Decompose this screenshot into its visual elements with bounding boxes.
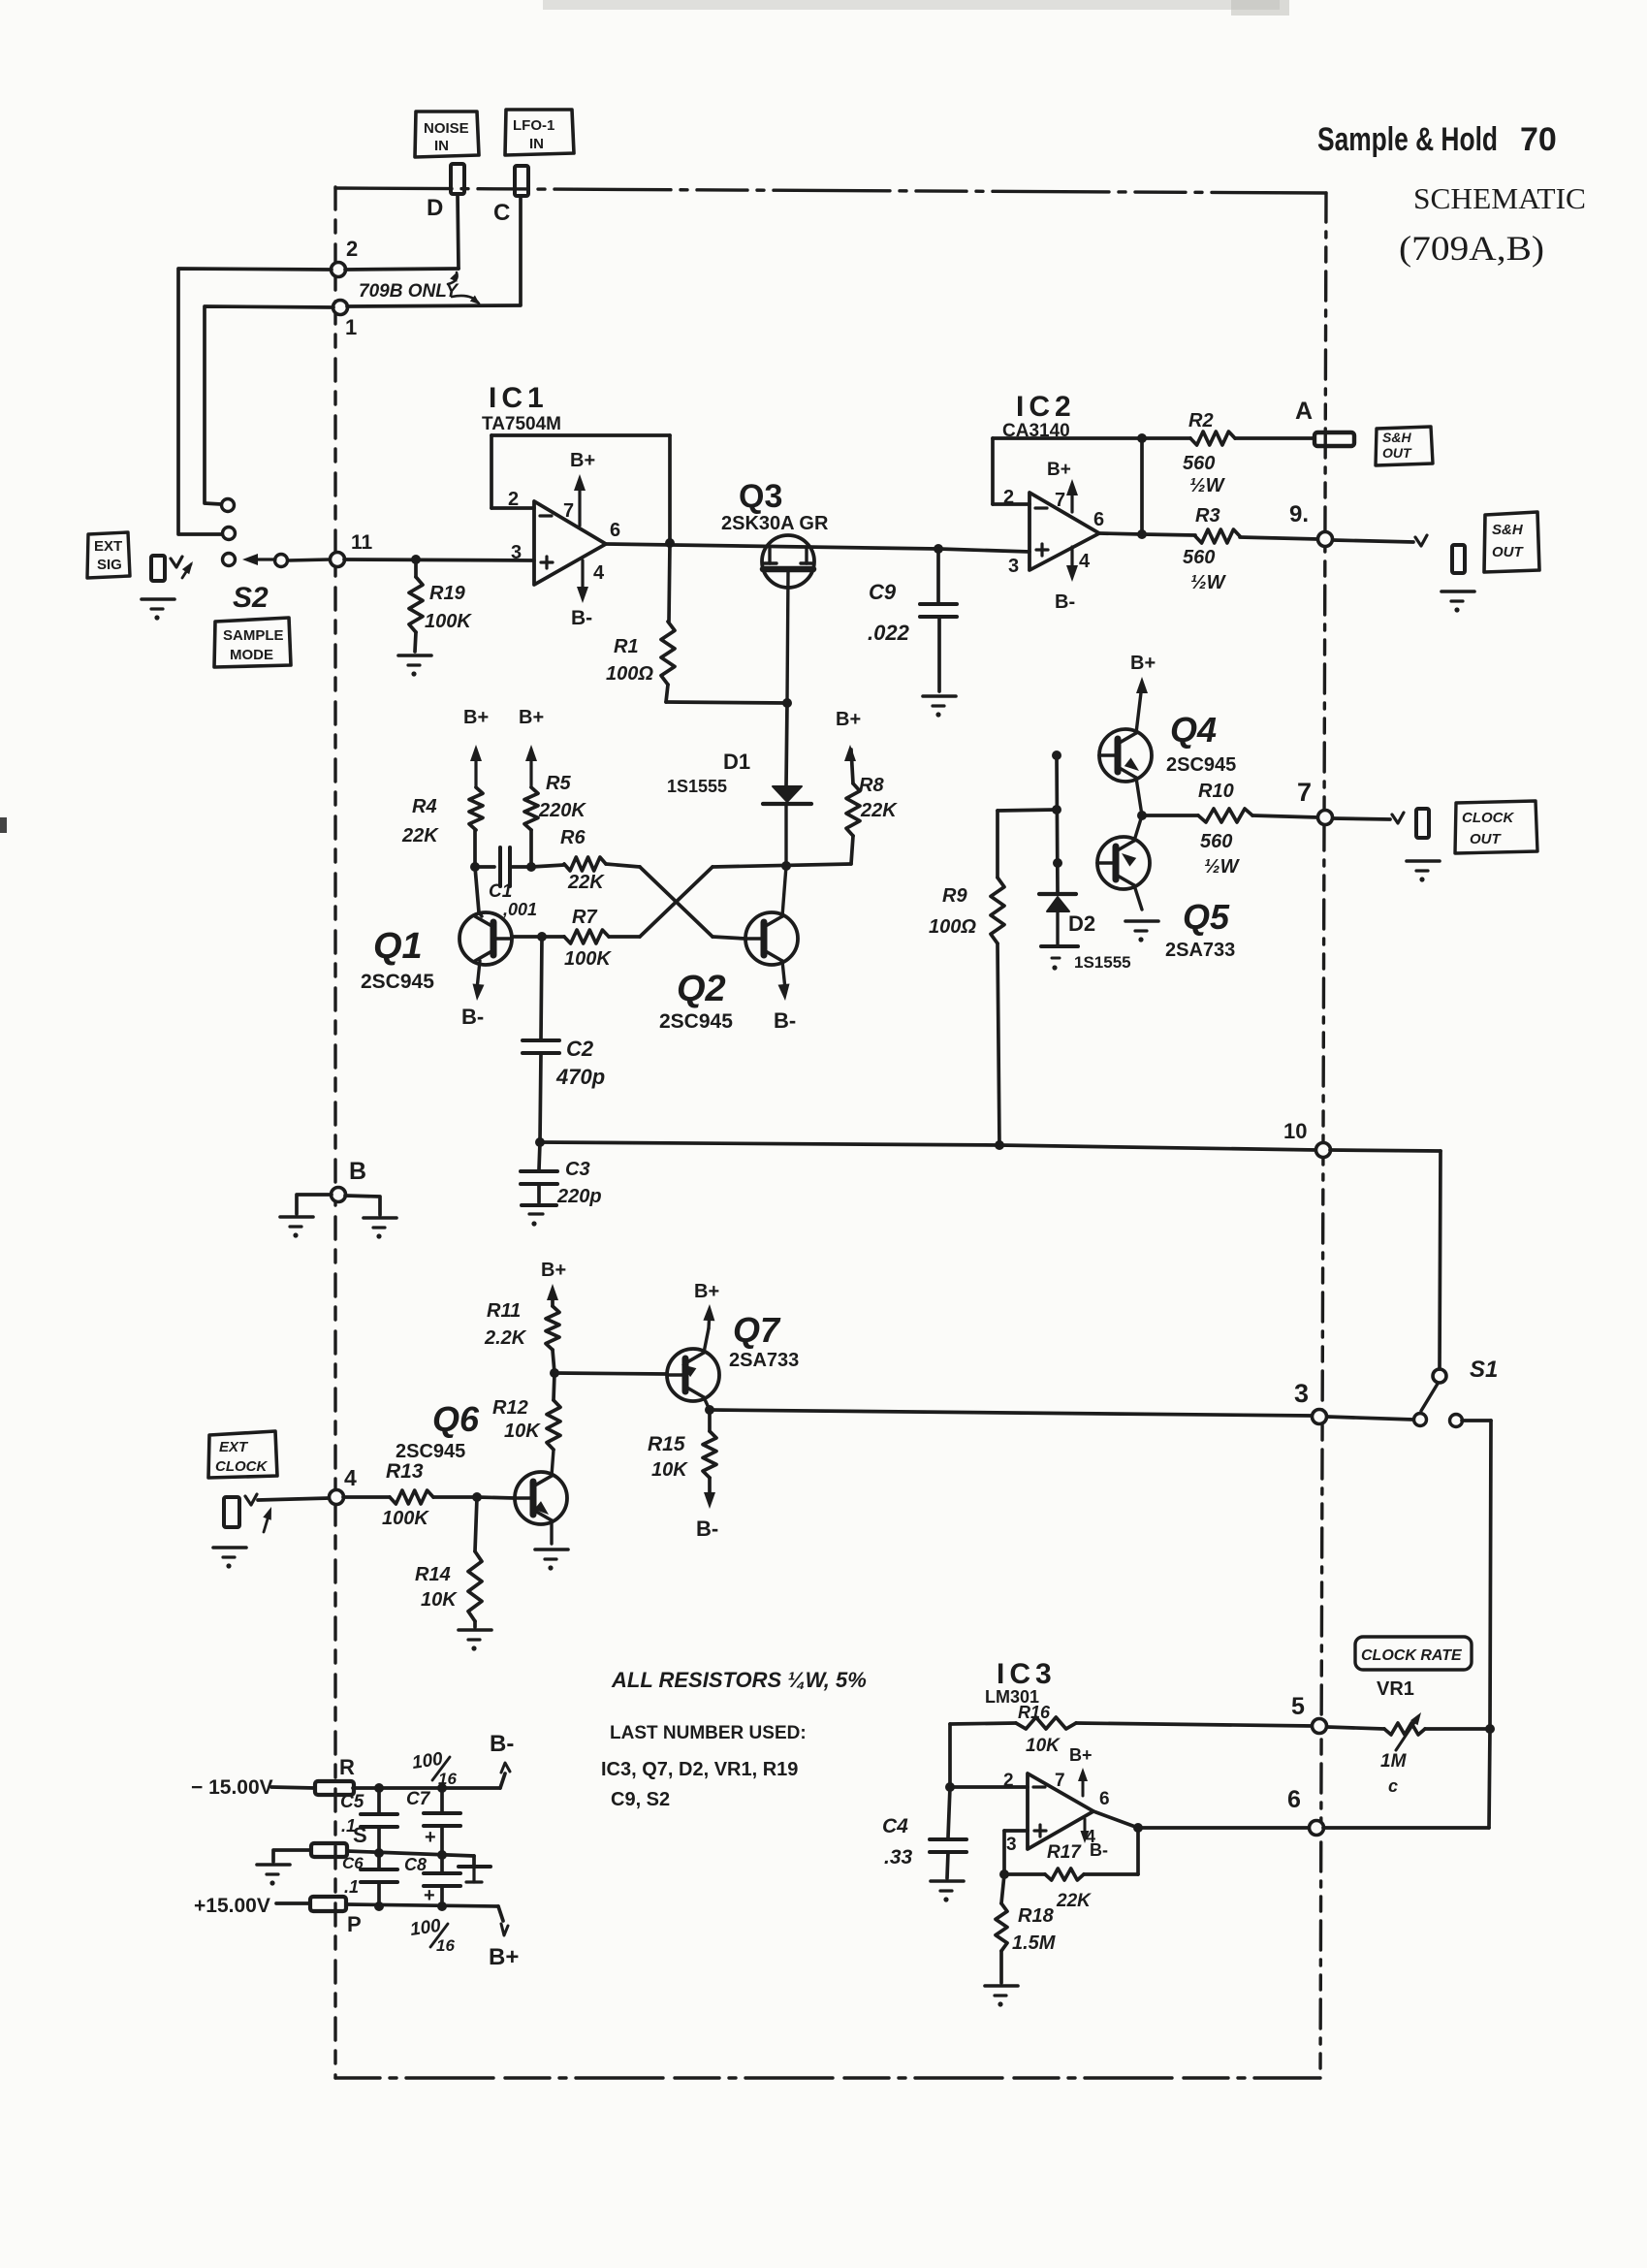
svg-text:− 15.00V: − 15.00V (191, 1776, 273, 1799)
svg-text:B-: B- (1055, 591, 1075, 613)
svg-text:22K: 22K (401, 825, 439, 847)
svg-text:B-: B- (461, 1005, 484, 1029)
svg-text:½W: ½W (1189, 475, 1226, 496)
svg-text:Sample & Hold: Sample & Hold (1317, 121, 1498, 158)
svg-text:C5: C5 (340, 1792, 364, 1812)
svg-text:6: 6 (1287, 1786, 1301, 1813)
label CLOCK OUT box (1455, 801, 1537, 853)
svg-text:C6: C6 (342, 1854, 364, 1872)
svg-text:R5: R5 (546, 773, 571, 794)
svg-text:R19: R19 (429, 583, 466, 604)
wire cross to Q2 collector node (713, 861, 851, 871)
capacitor C6 (342, 1853, 397, 1906)
svg-text:B-: B- (490, 1731, 514, 1757)
R15 power B- arrow (696, 1492, 718, 1541)
svg-text:1: 1 (345, 315, 357, 339)
resistor R5 (524, 773, 586, 867)
ground (C9) (923, 696, 956, 718)
jack C (lfo in) (515, 166, 528, 196)
svg-text:C3: C3 (565, 1159, 590, 1180)
label LFO-1 IN box (505, 110, 574, 155)
terminal 3 (1294, 1379, 1327, 1424)
wire jack C down (519, 196, 523, 304)
svg-text:10: 10 (1283, 1119, 1307, 1143)
svg-text:C9, S2: C9, S2 (611, 1789, 670, 1810)
jack J clock-out (1416, 809, 1429, 838)
svg-text:CLOCK: CLOCK (1462, 810, 1514, 826)
svg-text:R1: R1 (614, 636, 639, 657)
wire R1 to Q3 gate node (666, 698, 792, 708)
svg-text:7: 7 (1055, 1771, 1065, 1791)
label S&H OUT box (9) (1484, 512, 1539, 572)
ground (Q6) (535, 1549, 568, 1571)
svg-text:10K: 10K (421, 1589, 458, 1611)
terminal lug P (310, 1897, 362, 1936)
op-amp IC1 (482, 382, 620, 585)
switch S1 (1414, 1357, 1499, 1427)
svg-text:S&H: S&H (1382, 430, 1411, 445)
svg-text:2SC945: 2SC945 (361, 971, 434, 993)
svg-text:2SA733: 2SA733 (1165, 940, 1235, 961)
ground (ext clock jack) (213, 1548, 246, 1569)
wire Q4 emitter node (1137, 811, 1198, 820)
svg-text:CLOCK: CLOCK (215, 1458, 268, 1475)
module border top (dash-dot) (335, 188, 1326, 193)
terminal 4 (330, 1465, 358, 1505)
svg-text:OUT: OUT (1470, 831, 1503, 847)
resistor R9 (929, 811, 1004, 1145)
wire IC3 +in (999, 1831, 1028, 1879)
svg-text:S&H: S&H (1492, 522, 1524, 538)
ground (B right) (364, 1218, 396, 1239)
svg-text:9.: 9. (1289, 501, 1309, 527)
svg-text:c: c (1388, 1776, 1398, 1796)
resistor R6 (560, 827, 640, 893)
svg-text:EXT: EXT (219, 1439, 249, 1455)
resistor R10 (1198, 781, 1318, 878)
svg-text:R12: R12 (492, 1397, 528, 1419)
wire S rail (347, 1848, 474, 1865)
terminal 1 (333, 301, 358, 340)
svg-text:16: 16 (438, 1770, 457, 1788)
svg-text:C1: C1 (489, 881, 512, 902)
ground (s&h out jack) (1441, 591, 1474, 613)
svg-text:2SK30A GR: 2SK30A GR (721, 513, 829, 534)
resistor R18 (996, 1874, 1057, 1983)
svg-text:C8: C8 (404, 1855, 427, 1874)
terminal 7 (1297, 778, 1333, 825)
wire terminal6 to right rail (1323, 1729, 1490, 1828)
wire IC2 out (1099, 533, 1142, 534)
IC1 power B- arrow (571, 560, 592, 629)
svg-text:S1: S1 (1470, 1357, 1498, 1383)
wire R9 to base bus (998, 805, 1061, 815)
svg-text:B+: B+ (694, 1281, 719, 1302)
svg-text:C7: C7 (406, 1789, 431, 1809)
svg-text:IC2: IC2 (1016, 391, 1076, 423)
wire IC1 out to C9 node (606, 538, 943, 554)
jack J ext-sig (151, 556, 165, 581)
label CLOCK RATE box (1355, 1637, 1472, 1670)
svg-text:B+: B+ (1047, 460, 1071, 480)
svg-text:.022: .022 (868, 621, 910, 645)
svg-text:R4: R4 (412, 796, 437, 817)
svg-text:SCHEMATIC: SCHEMATIC (1413, 181, 1586, 215)
wire IC2 feedback loop (993, 433, 1147, 539)
wire Q7 collector to terminal3 (705, 1405, 1313, 1416)
svg-text:½W: ½W (1204, 856, 1241, 878)
wire +15V rail (276, 1901, 503, 1921)
resistor R19 (409, 559, 472, 652)
transistor Q3 (JFET) (721, 478, 829, 703)
jack J s&h-out (1452, 545, 1465, 573)
label 100/16 (C7) (411, 1749, 458, 1788)
IC2 power B+ arrow (1047, 460, 1078, 512)
svg-text:Q6: Q6 (432, 1399, 480, 1439)
wire IC3 feedback left (945, 1724, 1028, 1792)
potentiometer VR1 (1327, 1678, 1495, 1796)
svg-text:IN: IN (434, 138, 449, 154)
wire C9 node to IC2 +in (938, 549, 1029, 552)
svg-text:B+: B+ (570, 450, 595, 471)
svg-text:B: B (349, 1158, 366, 1185)
svg-text:B+: B+ (519, 707, 544, 728)
jack vee (clock out) (1392, 813, 1404, 823)
svg-text:7: 7 (563, 500, 574, 522)
svg-text:10K: 10K (504, 1421, 541, 1442)
ground (R18) (985, 1986, 1018, 2007)
svg-text:R2: R2 (1188, 410, 1214, 431)
svg-text:220p: 220p (556, 1186, 602, 1207)
svg-text:+15.00V: +15.00V (194, 1895, 270, 1917)
label NOISE IN box (415, 112, 479, 157)
transistor Q1 (361, 912, 512, 1001)
svg-text:R13: R13 (386, 1460, 424, 1483)
svg-text:LAST NUMBER USED:: LAST NUMBER USED: (610, 1723, 807, 1743)
title Sample & Hold 70 (1317, 121, 1557, 158)
svg-text:ALL RESISTORS ¼W, 5%: ALL RESISTORS ¼W, 5% (611, 1668, 867, 1692)
wire terminal4 to R13 (343, 1495, 390, 1499)
svg-text:R16: R16 (1018, 1703, 1051, 1722)
jack J ext-clock (224, 1497, 239, 1527)
switch S2 (222, 499, 331, 615)
svg-text:½W: ½W (1190, 572, 1227, 593)
svg-text:EXT: EXT (94, 538, 122, 555)
svg-text:B+: B+ (541, 1260, 566, 1281)
svg-text:.33: .33 (884, 1846, 913, 1869)
capacitor C9 (868, 549, 957, 691)
resistor R4 (401, 787, 483, 867)
wire Q4/Q5 base bus (1052, 751, 1062, 892)
svg-text:Q1: Q1 (373, 926, 423, 967)
svg-text:6: 6 (610, 520, 620, 541)
svg-text:+: + (425, 1827, 436, 1848)
ground (ext sig jack) (142, 599, 174, 621)
svg-text:560: 560 (1183, 453, 1215, 474)
jack D (noise in) (451, 164, 464, 194)
resistor R12 (492, 1368, 560, 1450)
wire S ground stub (273, 1850, 311, 1862)
jack arrow (ext clock) (263, 1507, 271, 1532)
svg-text:220K: 220K (538, 800, 586, 821)
svg-text:7: 7 (1055, 490, 1065, 511)
terminal lug S (311, 1823, 367, 1857)
ground (R14) (459, 1630, 491, 1651)
svg-text:R18: R18 (1018, 1905, 1055, 1927)
terminal 6 (1287, 1786, 1324, 1836)
svg-text:IC1: IC1 (489, 382, 549, 414)
resistor R3 (1142, 505, 1318, 593)
svg-text:100Ω: 100Ω (606, 663, 653, 685)
svg-text:VR1: VR1 (1377, 1678, 1414, 1700)
resistor R8 (846, 750, 898, 864)
svg-text:10K: 10K (1026, 1736, 1061, 1756)
svg-text:S2: S2 (233, 582, 269, 614)
svg-text:P: P (347, 1912, 362, 1936)
svg-text:.1: .1 (344, 1877, 359, 1897)
svg-text:B+: B+ (1130, 653, 1156, 674)
svg-text:R3: R3 (1195, 505, 1220, 527)
op-amp IC2 (1002, 391, 1104, 577)
svg-text:2SC945: 2SC945 (659, 1010, 733, 1033)
terminal 2 (332, 237, 359, 277)
wire R12 node to Q7 base (554, 1373, 667, 1374)
svg-text:,001: ,001 (502, 900, 537, 919)
ground (Q5) (1125, 921, 1158, 942)
wire C1 to R6 (526, 862, 564, 872)
svg-text:R7: R7 (572, 907, 597, 928)
wire cross to Q2 base (713, 937, 745, 939)
svg-text:IN: IN (529, 136, 544, 152)
svg-text:MODE: MODE (230, 647, 273, 663)
svg-text:2: 2 (346, 237, 358, 261)
svg-text:709B ONLY: 709B ONLY (359, 281, 459, 302)
wire jack to terminal4 (258, 1498, 330, 1500)
wire Q1 base to R7 (512, 932, 564, 942)
svg-text:1.5M: 1.5M (1012, 1933, 1057, 1954)
wire IC3 out to terminal6 (1093, 1811, 1310, 1833)
resistor R14 (415, 1497, 482, 1627)
svg-text:A: A (1295, 398, 1313, 425)
svg-text:C2: C2 (566, 1037, 594, 1061)
svg-text:IC3: IC3 (997, 1658, 1057, 1690)
svg-text:S: S (353, 1823, 367, 1847)
R5 power B+ arrow (519, 707, 544, 787)
terminal 9 (1289, 501, 1333, 547)
svg-text:Q5: Q5 (1183, 897, 1230, 937)
svg-text:70: 70 (1520, 121, 1557, 158)
B- supply label (490, 1731, 514, 1773)
svg-text:5: 5 (1291, 1693, 1305, 1720)
wire terminal1 to jack C (347, 305, 521, 306)
label 100/16 (C8) (409, 1916, 456, 1955)
terminal lug A (1295, 398, 1354, 446)
svg-text:3: 3 (511, 542, 522, 563)
svg-text:100K: 100K (382, 1508, 429, 1529)
wire -15V rail (271, 1773, 505, 1793)
ground (S terminal) (257, 1865, 290, 1886)
svg-text:R17: R17 (1047, 1842, 1082, 1863)
svg-text:C9: C9 (869, 580, 897, 604)
wire terminal3 to S1 contact (1327, 1417, 1413, 1420)
svg-text:6: 6 (1093, 509, 1104, 530)
svg-text:IC3, Q7, D2, VR1, R19: IC3, Q7, D2, VR1, R19 (601, 1759, 798, 1780)
transistor Q4 (1099, 685, 1236, 815)
svg-text:2SC945: 2SC945 (1166, 754, 1236, 776)
svg-text:4: 4 (344, 1465, 357, 1490)
capacitor C1 (475, 847, 537, 919)
svg-text:B-: B- (696, 1517, 718, 1541)
svg-text:Q3: Q3 (739, 478, 782, 515)
svg-text:R: R (339, 1755, 355, 1779)
svg-text:2.2K: 2.2K (484, 1327, 527, 1349)
svg-text:Q2: Q2 (677, 969, 726, 1009)
svg-text:R10: R10 (1198, 781, 1234, 802)
jack arrow (182, 561, 193, 578)
svg-text:1S1555: 1S1555 (1074, 953, 1131, 972)
label S&H OUT box (A) (1376, 427, 1433, 465)
svg-text:D1: D1 (723, 750, 750, 774)
svg-text:6: 6 (1099, 1789, 1110, 1809)
resistor R13 (382, 1460, 515, 1529)
capacitor C3 (521, 1142, 602, 1227)
transistor Q2 (659, 866, 798, 1033)
wire terminal10 to S1 (1330, 1150, 1441, 1369)
svg-text:560: 560 (1183, 547, 1215, 568)
svg-text:2SC945: 2SC945 (396, 1441, 465, 1462)
Q4 power B+ arrow (1130, 653, 1156, 693)
capacitor C5 (340, 1788, 397, 1853)
jack contact vee (ext clock) (245, 1494, 257, 1505)
transistor Q7 (667, 1310, 799, 1410)
wire timing node to node10 line (535, 1137, 1316, 1150)
resistor R11 (484, 1291, 559, 1373)
svg-text:B-: B- (774, 1008, 796, 1033)
svg-text:100Ω: 100Ω (929, 916, 976, 938)
svg-text:Q7: Q7 (733, 1310, 781, 1350)
svg-text:4: 4 (1079, 551, 1091, 572)
svg-text:1M: 1M (1380, 1751, 1408, 1772)
wire cross-couple lower (640, 867, 713, 937)
svg-text:10K: 10K (651, 1459, 688, 1481)
wire terminal7 to clock jack (1333, 818, 1390, 819)
terminal 11 (331, 531, 373, 567)
svg-text:R6: R6 (560, 827, 586, 848)
R11 power B+ arrow (541, 1260, 566, 1300)
svg-text:470p: 470p (555, 1065, 605, 1089)
IC3 power B+ arrow (1069, 1745, 1093, 1796)
note LAST NUMBER USED (601, 1723, 807, 1810)
svg-text:B-: B- (571, 607, 592, 629)
ground (B left) (280, 1217, 313, 1238)
svg-text:Q4: Q4 (1170, 710, 1217, 750)
wire terminal11 to IC1 +in (344, 555, 534, 564)
R4 power B+ arrow (463, 707, 489, 787)
ground (R19) (398, 655, 431, 677)
svg-text:100K: 100K (425, 611, 472, 632)
svg-text:560: 560 (1200, 831, 1232, 852)
R8 power B+ arrow (836, 709, 861, 761)
wire terminal1 left loop to S2 contact (205, 306, 333, 504)
svg-text:R8: R8 (859, 775, 884, 796)
note 709B ONLY (359, 272, 480, 304)
svg-text:SIG: SIG (97, 557, 122, 573)
terminal 10 (1283, 1119, 1331, 1158)
wire terminal2 to jack D (345, 269, 459, 270)
capacitor C8 (404, 1855, 460, 1906)
svg-text:C: C (493, 200, 510, 226)
svg-text:11: 11 (351, 531, 373, 554)
svg-text:B+: B+ (489, 1944, 519, 1970)
module border left (dashed) (333, 187, 336, 2078)
svg-text:100K: 100K (564, 948, 612, 970)
wire cross-couple upper (640, 867, 713, 937)
svg-text:OUT: OUT (1382, 445, 1412, 461)
label EXT CLOCK box (208, 1431, 277, 1478)
svg-text:4: 4 (593, 562, 605, 584)
module border bottom (dash-dot) (335, 2076, 1319, 2079)
diode D1 (667, 703, 811, 866)
diode D2 (1039, 894, 1131, 972)
svg-text:D: D (427, 195, 443, 221)
svg-text:2SA733: 2SA733 (729, 1350, 799, 1371)
wire jack D down (458, 194, 459, 269)
wire terminal B grounds (297, 1195, 380, 1215)
jack vee (S&H out) (1415, 535, 1427, 546)
svg-text:(709A,B): (709A,B) (1399, 229, 1544, 268)
svg-text:3: 3 (1006, 1835, 1017, 1855)
svg-text:TA7504M: TA7504M (482, 414, 561, 434)
transistor Q5 (1097, 815, 1235, 961)
resistor R16 (950, 1703, 1314, 1756)
ground (C4) (931, 1881, 964, 1902)
svg-text:22K: 22K (1056, 1891, 1092, 1911)
svg-text:CLOCK RATE: CLOCK RATE (1361, 1647, 1463, 1664)
svg-text:LFO-1: LFO-1 (513, 117, 554, 134)
capacitor C4 (882, 1787, 966, 1878)
wire terminal2 left loop to S2 contact (178, 269, 332, 534)
svg-text:7: 7 (1297, 778, 1312, 807)
B+ supply label (489, 1924, 519, 1970)
resistor R2 (1142, 410, 1314, 496)
capacitor C7 (406, 1788, 460, 1855)
svg-text:22K: 22K (567, 872, 605, 893)
capacitor C2 (523, 937, 605, 1142)
svg-text:22K: 22K (860, 800, 898, 821)
transistor Q6 (396, 1399, 567, 1544)
svg-text:D2: D2 (1068, 911, 1095, 936)
Q7 power B+ arrow (694, 1281, 719, 1328)
module border right (dash-dot) (1320, 193, 1326, 2078)
svg-text:NOISE: NOISE (424, 120, 469, 137)
IC1 power B+ arrow (570, 450, 595, 526)
terminal lug R (315, 1755, 355, 1795)
ground (clock out jack) (1407, 861, 1440, 882)
svg-text:B+: B+ (836, 709, 861, 730)
resistor R1 (606, 543, 675, 702)
svg-text:R14: R14 (415, 1564, 451, 1585)
op-amp IC3 (985, 1658, 1110, 1855)
svg-text:3: 3 (1008, 556, 1019, 577)
svg-text:+: + (424, 1885, 435, 1906)
svg-text:B-: B- (1090, 1840, 1108, 1860)
terminal 5 (1291, 1693, 1327, 1734)
IC3 power B- arrow (1081, 1819, 1109, 1860)
svg-text:B+: B+ (463, 707, 489, 728)
svg-text:1S1555: 1S1555 (667, 777, 727, 796)
svg-text:16: 16 (436, 1936, 455, 1955)
svg-text:B+: B+ (1069, 1745, 1093, 1765)
